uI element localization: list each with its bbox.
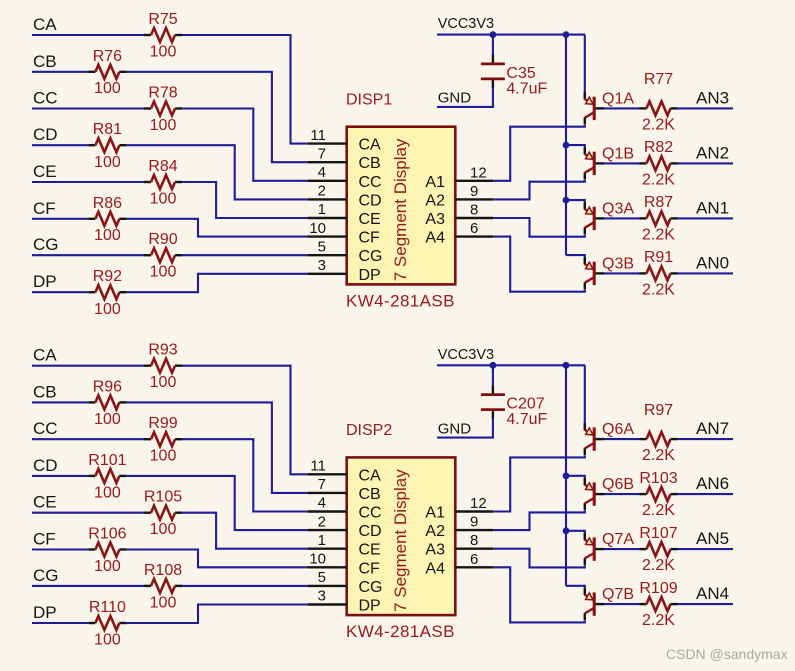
wire R103 to AN6 xyxy=(678,493,734,495)
svg-text:R103: R103 xyxy=(639,470,677,487)
svg-text:Q3B: Q3B xyxy=(602,256,634,273)
svg-text:5: 5 xyxy=(318,569,326,586)
svg-text:6: 6 xyxy=(470,551,478,568)
pin 3 (DP) xyxy=(308,603,347,605)
svg-text:CE: CE xyxy=(359,542,381,559)
resistor R108 100 xyxy=(144,562,182,612)
svg-text:AN2: AN2 xyxy=(696,144,729,163)
wire A3 to Q7A collector xyxy=(493,549,585,568)
wire Q3B base to R91 xyxy=(604,272,640,274)
svg-text:CC: CC xyxy=(33,89,58,108)
svg-text:CG: CG xyxy=(359,248,383,265)
svg-text:100: 100 xyxy=(94,80,121,97)
resistor R84 100 xyxy=(144,158,182,208)
svg-text:2.2K: 2.2K xyxy=(642,116,675,133)
svg-text:AN1: AN1 xyxy=(696,199,729,218)
svg-text:11: 11 xyxy=(310,458,326,475)
svg-text:VCC3V3: VCC3V3 xyxy=(438,16,494,32)
junction rail/Q6B xyxy=(563,472,570,479)
junction VCC/rail xyxy=(563,31,570,38)
svg-text:R106: R106 xyxy=(88,526,126,543)
resistor R87 2.2K xyxy=(640,194,678,243)
svg-text:100: 100 xyxy=(150,44,177,61)
svg-text:8: 8 xyxy=(470,532,478,549)
svg-text:R91: R91 xyxy=(644,249,673,266)
capacitor C207 4.7uF xyxy=(481,385,548,428)
wire R106 to pin 10 xyxy=(126,550,307,568)
wire DP to R110 xyxy=(32,622,88,624)
capacitor C35 4.7uF xyxy=(481,54,548,97)
svg-text:12: 12 xyxy=(470,164,487,181)
wire R75 to pin 11 xyxy=(182,35,308,144)
wire CA to R75 xyxy=(32,34,144,36)
svg-text:AN3: AN3 xyxy=(696,89,729,108)
svg-text:2.2K: 2.2K xyxy=(642,557,675,574)
wire rail to Q1A emitter xyxy=(584,35,586,100)
wire R84 to pin 1 xyxy=(182,182,308,218)
svg-text:CD: CD xyxy=(33,125,58,144)
svg-text:100: 100 xyxy=(94,301,121,318)
svg-text:CG: CG xyxy=(33,566,59,585)
svg-text:9: 9 xyxy=(470,183,478,200)
wire CD to R81 xyxy=(32,144,88,146)
pin 9 (A2) xyxy=(455,198,493,200)
svg-text:R110: R110 xyxy=(89,599,126,616)
wire CB to R96 xyxy=(32,401,88,403)
svg-text:Q7B: Q7B xyxy=(602,586,634,603)
svg-text:2.2K: 2.2K xyxy=(642,226,675,243)
pin 12 (A1) xyxy=(455,180,493,182)
pin 1 (CE) xyxy=(308,548,347,550)
svg-text:AN0: AN0 xyxy=(696,254,729,273)
resistor R103 2.2K xyxy=(639,470,677,519)
wire R81 to pin 2 xyxy=(126,145,307,199)
svg-text:DP: DP xyxy=(359,598,381,615)
svg-text:A1: A1 xyxy=(425,505,445,522)
pin 10 (CF) xyxy=(308,235,347,237)
wire rail to Q7A emitter xyxy=(566,531,585,540)
transistor Q6B (PNP) xyxy=(585,476,634,510)
wire R101 to pin 2 xyxy=(126,476,307,530)
wire R109 to AN4 xyxy=(678,603,734,605)
resistor R82 2.2K xyxy=(640,139,678,188)
pin 8 (A3) xyxy=(455,548,493,550)
svg-text:CF: CF xyxy=(33,530,56,549)
wire CB to R76 xyxy=(32,71,88,73)
wire A3 to Q3A collector xyxy=(493,218,585,237)
pin 6 (A4) xyxy=(455,235,493,237)
pin 11 (CA) xyxy=(308,473,347,475)
wire A1 to Q6A collector xyxy=(493,455,585,511)
wire R87 to AN1 xyxy=(678,217,734,219)
wire DP to R92 xyxy=(32,291,88,293)
svg-text:Q1A: Q1A xyxy=(602,91,634,108)
transistor Q3A (PNP) xyxy=(585,201,635,235)
wire VCC3V3 rail xyxy=(437,364,585,366)
wire A4 to Q7B collector xyxy=(493,567,585,622)
svg-text:11: 11 xyxy=(310,127,326,144)
svg-text:CB: CB xyxy=(359,155,381,172)
svg-text:4.7uF: 4.7uF xyxy=(506,80,547,97)
wire CD to R101 xyxy=(32,475,88,477)
wire CG to R90 xyxy=(32,254,144,256)
transistor Q1A (PNP) xyxy=(585,91,635,125)
svg-text:7: 7 xyxy=(318,476,326,493)
wire VCC to cap xyxy=(492,365,494,386)
svg-text:CG: CG xyxy=(33,235,59,254)
svg-text:A1: A1 xyxy=(425,174,445,191)
svg-text:R92: R92 xyxy=(93,268,122,285)
svg-text:AN4: AN4 xyxy=(696,584,729,603)
pin 11 (CA) xyxy=(308,142,347,144)
svg-text:A2: A2 xyxy=(425,192,445,209)
svg-text:2.2K: 2.2K xyxy=(642,502,675,519)
resistor R106 100 xyxy=(88,526,126,576)
junction rail/Q7A xyxy=(563,527,570,534)
transistor Q7A (PNP) xyxy=(585,531,635,565)
svg-text:7 Segment Display: 7 Segment Display xyxy=(391,469,410,612)
svg-text:CF: CF xyxy=(359,560,381,577)
svg-text:CA: CA xyxy=(33,15,57,34)
svg-text:R107: R107 xyxy=(639,525,677,542)
wire R91 to AN0 xyxy=(678,272,734,274)
pin 12 (A1) xyxy=(455,510,493,512)
svg-text:R84: R84 xyxy=(148,158,177,175)
resistor R78 100 xyxy=(144,85,182,135)
svg-text:100: 100 xyxy=(94,154,121,171)
wire VCC to cap xyxy=(492,35,494,56)
junction VCC/cap xyxy=(490,362,497,369)
wire Q7A base to R107 xyxy=(604,548,640,550)
junction VCC/cap xyxy=(490,31,497,38)
wire R105 to pin 1 xyxy=(182,513,308,549)
wire CG to R108 xyxy=(32,585,144,587)
resistor R101 100 xyxy=(88,452,126,502)
resistor R92 100 xyxy=(88,268,126,318)
wire CF to R106 xyxy=(32,548,88,550)
svg-text:GND: GND xyxy=(438,90,472,107)
wire R78 to pin 4 xyxy=(182,109,308,181)
svg-text:CE: CE xyxy=(33,493,57,512)
svg-text:2.2K: 2.2K xyxy=(642,281,675,298)
pin 3 (DP) xyxy=(308,273,347,275)
svg-text:2.2K: 2.2K xyxy=(642,447,675,464)
pin 7 (CB) xyxy=(308,161,347,163)
pin 5 (CG) xyxy=(308,254,347,256)
resistor R93 100 xyxy=(144,342,182,392)
resistor R77 2.2K xyxy=(640,71,678,133)
svg-text:R96: R96 xyxy=(93,378,122,395)
svg-text:R82: R82 xyxy=(644,139,673,156)
svg-text:Q3A: Q3A xyxy=(602,201,634,218)
wire rail to Q1B emitter xyxy=(566,145,585,154)
wire R82 to AN2 xyxy=(678,162,734,164)
svg-text:R78: R78 xyxy=(148,85,177,102)
7-segment display DISP2 KW4-281ASB xyxy=(346,422,455,641)
svg-text:R97: R97 xyxy=(644,402,673,419)
resistor R75 100 xyxy=(144,11,182,61)
7-segment display DISP1 KW4-281ASB xyxy=(346,92,455,311)
svg-text:AN6: AN6 xyxy=(696,474,729,493)
svg-text:CF: CF xyxy=(359,230,381,247)
svg-text:A3: A3 xyxy=(425,542,445,559)
svg-text:5: 5 xyxy=(318,238,326,255)
svg-text:AN7: AN7 xyxy=(696,419,729,438)
wire emitter rail xyxy=(565,365,567,586)
svg-text:2: 2 xyxy=(318,513,326,530)
wire A2 to Q6B collector xyxy=(493,510,585,530)
wire R96 to pin 7 xyxy=(126,402,307,493)
svg-text:A2: A2 xyxy=(425,523,445,540)
svg-text:CA: CA xyxy=(359,137,382,154)
svg-text:CSDN @sandymax: CSDN @sandymax xyxy=(666,646,788,662)
svg-text:100: 100 xyxy=(94,484,121,501)
svg-text:4: 4 xyxy=(318,495,326,512)
svg-text:CB: CB xyxy=(359,486,381,503)
svg-text:R87: R87 xyxy=(644,194,673,211)
wire CA to R93 xyxy=(32,365,144,367)
wire CC to R78 xyxy=(32,107,144,109)
svg-text:Q6B: Q6B xyxy=(602,476,634,493)
junction VCC/rail xyxy=(563,362,570,369)
pin 4 (CC) xyxy=(308,180,347,182)
svg-text:CE: CE xyxy=(33,162,57,181)
resistor R109 2.2K xyxy=(639,580,677,629)
svg-text:R81: R81 xyxy=(93,121,122,138)
svg-text:A4: A4 xyxy=(425,560,445,577)
wire emitter rail xyxy=(565,35,567,256)
wire Q6A base to R97 xyxy=(604,438,640,440)
svg-text:AN5: AN5 xyxy=(696,529,729,548)
wire Q1B base to R82 xyxy=(604,162,640,164)
wire rail to Q3A emitter xyxy=(566,200,585,209)
svg-text:100: 100 xyxy=(150,374,177,391)
wire CC to R99 xyxy=(32,438,144,440)
wire rail to Q7B emitter xyxy=(566,586,585,595)
svg-text:100: 100 xyxy=(150,191,177,208)
svg-text:7 Segment Display: 7 Segment Display xyxy=(391,138,410,281)
resistor R76 100 xyxy=(88,48,126,97)
svg-text:R108: R108 xyxy=(144,562,182,579)
wire Q6B base to R103 xyxy=(604,493,640,495)
pin 2 (CD) xyxy=(308,198,347,200)
svg-text:9: 9 xyxy=(470,514,478,531)
svg-text:4.7uF: 4.7uF xyxy=(506,411,547,428)
wire cap to GND xyxy=(437,87,493,107)
pin 4 (CC) xyxy=(308,510,347,512)
pin 8 (A3) xyxy=(455,217,493,219)
pin 7 (CB) xyxy=(308,492,347,494)
wire Q7B base to R109 xyxy=(604,603,640,605)
svg-text:3: 3 xyxy=(318,257,326,274)
svg-text:KW4-281ASB: KW4-281ASB xyxy=(346,622,455,641)
svg-text:100: 100 xyxy=(150,117,177,134)
svg-text:DISP1: DISP1 xyxy=(346,92,392,109)
svg-text:Q1B: Q1B xyxy=(602,146,634,163)
svg-text:100: 100 xyxy=(150,594,177,611)
junction rail/Q3A xyxy=(563,197,570,204)
svg-text:3: 3 xyxy=(318,588,326,605)
svg-text:1: 1 xyxy=(318,532,326,549)
resistor R81 100 xyxy=(88,121,126,171)
wire R107 to AN5 xyxy=(678,548,734,550)
wire R90 to pin 5 xyxy=(182,254,308,256)
wire A4 to Q3B collector xyxy=(493,237,585,292)
svg-text:100: 100 xyxy=(150,448,177,465)
svg-text:VCC3V3: VCC3V3 xyxy=(438,347,494,363)
svg-text:CC: CC xyxy=(33,419,58,438)
svg-text:CD: CD xyxy=(33,456,58,475)
svg-text:GND: GND xyxy=(438,420,472,437)
pin 5 (CG) xyxy=(308,585,347,587)
svg-text:CC: CC xyxy=(359,505,382,522)
svg-text:2: 2 xyxy=(318,183,326,200)
svg-text:8: 8 xyxy=(470,202,478,219)
junction rail/Q1B xyxy=(563,142,570,149)
wire cap to GND xyxy=(437,418,493,438)
svg-text:R93: R93 xyxy=(148,342,177,359)
svg-text:CD: CD xyxy=(359,523,382,540)
resistor R97 2.2K xyxy=(640,402,678,464)
svg-text:R109: R109 xyxy=(639,580,677,597)
svg-text:Q6A: Q6A xyxy=(602,421,634,438)
svg-text:CF: CF xyxy=(33,199,56,218)
svg-text:R76: R76 xyxy=(93,48,122,65)
transistor Q6A (PNP) xyxy=(585,421,635,455)
svg-text:Q7A: Q7A xyxy=(602,531,634,548)
wire VCC3V3 rail xyxy=(437,34,585,36)
svg-text:R86: R86 xyxy=(93,195,122,212)
resistor R96 100 xyxy=(88,378,126,428)
svg-text:CG: CG xyxy=(359,579,383,596)
wire rail to Q3B emitter xyxy=(566,255,585,264)
wire R110 to pin 3 xyxy=(126,605,307,624)
svg-text:DP: DP xyxy=(33,272,57,291)
resistor R90 100 xyxy=(144,231,182,281)
wire R86 to pin 10 xyxy=(126,219,307,237)
resistor R99 100 xyxy=(144,415,182,465)
svg-text:CA: CA xyxy=(33,346,57,365)
svg-text:CB: CB xyxy=(33,52,57,71)
wire Q1A base to R77 xyxy=(604,107,640,109)
svg-text:100: 100 xyxy=(94,411,121,428)
svg-text:CD: CD xyxy=(359,192,382,209)
svg-text:DP: DP xyxy=(33,603,57,622)
svg-text:12: 12 xyxy=(470,495,487,512)
wire R108 to pin 5 xyxy=(182,585,308,587)
svg-text:R90: R90 xyxy=(148,231,177,248)
svg-text:DISP2: DISP2 xyxy=(346,422,392,439)
transistor Q1B (PNP) xyxy=(585,146,634,180)
pin 6 (A4) xyxy=(455,566,493,568)
wire R76 to pin 7 xyxy=(126,72,307,162)
svg-text:CA: CA xyxy=(359,467,382,484)
resistor R110 100 xyxy=(88,599,126,649)
resistor R86 100 xyxy=(88,195,126,244)
svg-text:100: 100 xyxy=(150,521,177,538)
transistor Q3B (PNP) xyxy=(585,256,634,290)
svg-text:2.2K: 2.2K xyxy=(642,171,675,188)
wire Q3A base to R87 xyxy=(604,217,640,219)
wire R99 to pin 4 xyxy=(182,439,308,511)
pin 9 (A2) xyxy=(455,529,493,531)
svg-text:DP: DP xyxy=(359,267,381,284)
wire rail to Q6B emitter xyxy=(566,476,585,485)
svg-text:10: 10 xyxy=(309,551,326,568)
svg-text:R105: R105 xyxy=(144,489,182,506)
svg-text:100: 100 xyxy=(94,632,121,649)
svg-text:100: 100 xyxy=(94,227,121,244)
wire R92 to pin 3 xyxy=(126,274,307,292)
wire CF to R86 xyxy=(32,218,88,220)
pin 2 (CD) xyxy=(308,529,347,531)
wire A2 to Q1B collector xyxy=(493,180,585,200)
wire CE to R84 xyxy=(32,181,144,183)
wire CE to R105 xyxy=(32,512,144,514)
pin 10 (CF) xyxy=(308,566,347,568)
svg-text:R101: R101 xyxy=(88,452,126,469)
svg-text:CE: CE xyxy=(359,211,381,228)
svg-text:KW4-281ASB: KW4-281ASB xyxy=(346,291,455,310)
svg-text:4: 4 xyxy=(318,164,326,181)
svg-text:R77: R77 xyxy=(644,71,673,88)
svg-text:1: 1 xyxy=(318,201,326,218)
resistor R107 2.2K xyxy=(639,525,677,574)
resistor R105 100 xyxy=(144,489,182,539)
svg-text:A4: A4 xyxy=(425,230,445,247)
wire R77 to AN3 xyxy=(678,107,734,109)
wire R97 to AN7 xyxy=(678,438,734,440)
svg-text:7: 7 xyxy=(318,145,326,162)
resistor R91 2.2K xyxy=(640,249,678,298)
svg-text:R75: R75 xyxy=(148,11,177,28)
pin 1 (CE) xyxy=(308,217,347,219)
svg-text:A3: A3 xyxy=(425,211,445,228)
transistor Q7B (PNP) xyxy=(585,586,634,620)
wire R93 to pin 11 xyxy=(182,366,308,475)
svg-text:100: 100 xyxy=(94,558,121,575)
svg-text:R99: R99 xyxy=(148,415,177,432)
svg-text:6: 6 xyxy=(470,220,478,237)
svg-text:CB: CB xyxy=(33,382,57,401)
svg-text:2.2K: 2.2K xyxy=(642,612,675,629)
svg-text:CC: CC xyxy=(359,174,382,191)
wire rail to Q6A emitter xyxy=(584,365,586,430)
svg-text:100: 100 xyxy=(150,264,177,281)
svg-text:10: 10 xyxy=(309,220,326,237)
wire A1 to Q1A collector xyxy=(493,125,585,181)
